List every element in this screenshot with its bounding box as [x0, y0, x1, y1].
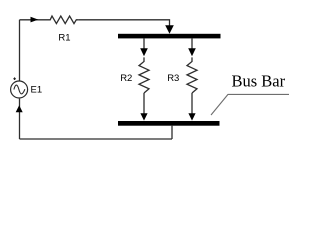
- svg-text:E1: E1: [31, 85, 43, 96]
- current arrow into R3: [188, 48, 196, 56]
- current arrow on top wire: [31, 17, 39, 23]
- svg-text:R2: R2: [120, 73, 132, 84]
- wire left vertical (source top to top-left corner): [19, 20, 21, 81]
- top bus bar: [118, 34, 221, 39]
- svg-text:Bus Bar: Bus Bar: [232, 72, 286, 91]
- source polarity plus mark: [13, 77, 16, 80]
- wire bottom bus to return: [171, 126, 173, 139]
- resistor R3: [187, 57, 197, 93]
- current arrow into top bus: [165, 25, 174, 34]
- wire top bus to R2: [143, 38, 145, 51]
- wire R3 to bottom bus: [191, 93, 193, 115]
- wire bottom return: [20, 138, 173, 140]
- source E1 circle: [11, 81, 28, 98]
- bottom bus bar: [118, 121, 220, 126]
- source E1 sine wave: [14, 85, 25, 94]
- wire left vertical bottom (return to source): [19, 99, 21, 139]
- wire R1 to bus drop: [79, 20, 170, 28]
- current arrow toward source: [16, 105, 23, 112]
- wire top bus to R3: [191, 38, 193, 51]
- resistor R2: [139, 57, 149, 93]
- current arrow into R2: [140, 48, 148, 56]
- wire R2 to bottom bus: [143, 93, 145, 115]
- callout leader line: [211, 94, 289, 115]
- current arrow R3 into bottom bus: [188, 113, 195, 120]
- resistor R1: [48, 16, 79, 24]
- current arrow R2 into bottom bus: [140, 113, 147, 120]
- wire top horizontal (corner to R1): [20, 19, 49, 21]
- svg-text:R3: R3: [167, 73, 179, 84]
- svg-text:R1: R1: [58, 33, 70, 44]
